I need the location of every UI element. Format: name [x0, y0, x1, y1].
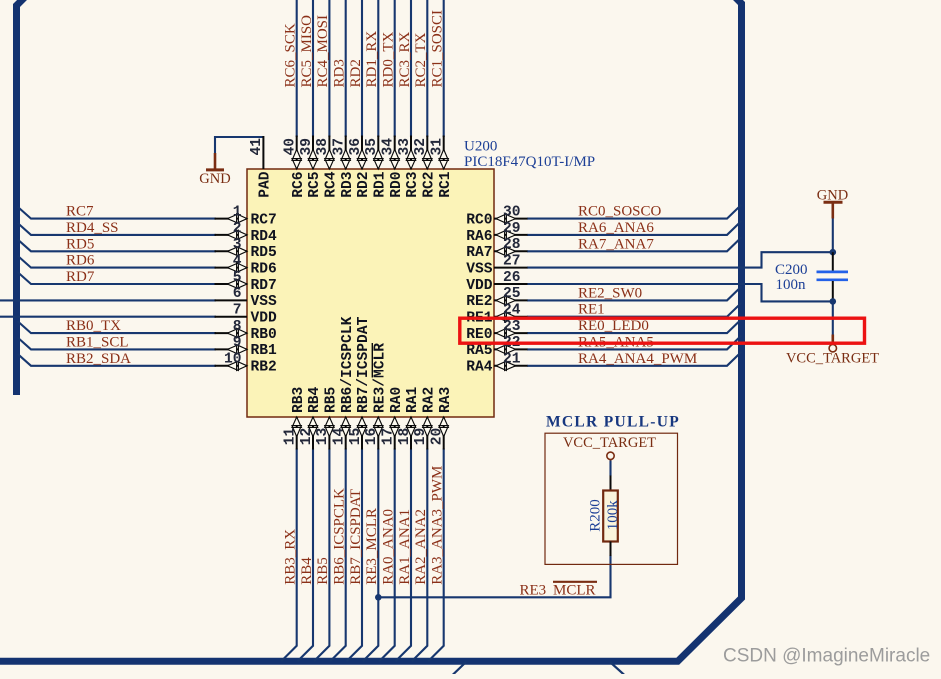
- pin 29 (RA6) right: [466, 221, 527, 245]
- IC U200 body (PIC18F47Q10T-I/MP): [247, 169, 494, 417]
- pin 13 (RB5) bottom: [315, 387, 339, 450]
- wire VSS/VDD pin 7 to left edge: [0, 316, 216, 318]
- resistor R200 100k: [603, 476, 618, 557]
- pin 5 (RD7) left: [215, 270, 277, 294]
- wire VSS/VDD pin 6 to left edge: [0, 299, 216, 301]
- svg-text:31: 31: [430, 138, 446, 156]
- svg-text:RC2: RC2: [422, 172, 438, 198]
- pin 4 (RD6) left: [215, 253, 277, 277]
- pin 22 (RA5) right: [466, 335, 527, 359]
- svg-text:24: 24: [503, 303, 521, 319]
- pin 1 (RC7) left: [215, 204, 277, 228]
- wire VCC_TARGET to R200: [609, 461, 611, 477]
- svg-text:4: 4: [233, 253, 242, 269]
- svg-text:RD4: RD4: [251, 229, 278, 245]
- svg-text:41: 41: [249, 138, 265, 156]
- pin 37 (RD3) top: [332, 136, 356, 198]
- pin 39 (RC5) top: [299, 136, 323, 198]
- sheet corner chamfer (bottom right notch): [610, 662, 626, 676]
- svg-text:RC5: RC5: [307, 172, 323, 198]
- svg-text:PAD: PAD: [258, 171, 274, 198]
- svg-text:VDD: VDD: [466, 278, 493, 294]
- svg-text:RD5: RD5: [66, 236, 94, 252]
- svg-text:RD1_RX: RD1_RX: [364, 31, 380, 88]
- wire net RD7 (left pin 5): [18, 272, 217, 284]
- svg-text:2: 2: [233, 221, 242, 237]
- svg-text:15: 15: [348, 428, 364, 446]
- svg-text:VCC_TARGET: VCC_TARGET: [563, 435, 656, 451]
- svg-text:38: 38: [315, 138, 331, 156]
- wire net RD3 (top pin 37): [345, 0, 347, 137]
- wire net RB4 (bottom pin 12): [298, 449, 314, 662]
- wire VDD pin 26 to C200 bottom: [527, 284, 833, 301]
- svg-text:VCC_TARGET: VCC_TARGET: [786, 351, 879, 367]
- svg-text:CSDN @ImagineMiracle: CSDN @ImagineMiracle: [723, 646, 930, 667]
- pin 9 (RB1) left: [215, 335, 278, 359]
- wire net RA6_ANA6 (right pin 29): [527, 221, 742, 235]
- svg-text:RD7: RD7: [251, 278, 277, 294]
- svg-text:8: 8: [233, 319, 242, 335]
- svg-text:RC0: RC0: [466, 212, 492, 228]
- pin 15 (RB7/ICSPDAT) bottom: [348, 316, 372, 449]
- svg-text:RB3_RX: RB3_RX: [283, 529, 299, 585]
- wire net RC0_SOSCO (right pin 30): [527, 205, 742, 219]
- pin 35 (RD1) top: [364, 136, 388, 198]
- svg-text:13: 13: [315, 428, 331, 446]
- junction RE3_MCLR: [375, 594, 382, 601]
- svg-text:RD3: RD3: [332, 59, 348, 87]
- svg-text:RA5: RA5: [466, 343, 492, 359]
- pin 33 (RC3) top: [397, 136, 421, 198]
- svg-text:25: 25: [503, 286, 521, 302]
- svg-text:RB1: RB1: [251, 343, 278, 359]
- svg-text:3: 3: [233, 237, 242, 253]
- pin 41 (PAD) top: [249, 136, 273, 198]
- svg-text:RB2: RB2: [251, 360, 277, 376]
- svg-text:RA1_ANA1: RA1_ANA1: [397, 509, 413, 585]
- svg-text:RD3: RD3: [340, 171, 356, 198]
- svg-text:RD7: RD7: [66, 269, 95, 285]
- bus (right vertical + bottom horizontal, chamfered sheet border): [0, 0, 742, 661]
- pin 24 (RE1) right: [466, 303, 527, 327]
- wire net RA4_ANA4_PWM (right pin 21): [527, 352, 742, 366]
- svg-text:R200: R200: [588, 499, 604, 532]
- svg-text:RC1_SOSCI: RC1_SOSCI: [430, 10, 446, 88]
- svg-text:RD0: RD0: [389, 172, 405, 198]
- svg-text:20: 20: [430, 428, 446, 446]
- svg-text:RC6: RC6: [291, 172, 307, 198]
- wire net RC6_SCK (top pin 40): [296, 0, 298, 137]
- wire net RD1_RX (top pin 35): [377, 0, 379, 137]
- pin 40 (RC6) top: [283, 136, 307, 198]
- svg-text:100n: 100n: [776, 277, 807, 293]
- svg-text:RB0_TX: RB0_TX: [66, 318, 121, 334]
- svg-text:RC2_TX: RC2_TX: [413, 32, 429, 87]
- pin 32 (RC2) top: [413, 136, 437, 198]
- wire net RB7_ICSPDAT (bottom pin 15): [347, 449, 363, 662]
- pin 20 (RA3) bottom: [430, 386, 454, 449]
- pin 17 (RA0) bottom: [381, 387, 405, 450]
- power port VCC_TARGET (C200): [786, 335, 879, 367]
- svg-text:RD5: RD5: [251, 245, 277, 261]
- svg-text:RC0_SOSCO: RC0_SOSCO: [578, 204, 662, 220]
- wire net RC1_SOSCI (top pin 31): [443, 0, 445, 137]
- wire RE3_MCLR horizontal to R200: [378, 555, 610, 597]
- svg-text:GND: GND: [199, 171, 230, 187]
- svg-text:RD2: RD2: [356, 172, 372, 198]
- svg-text:18: 18: [397, 428, 413, 446]
- svg-text:RC5_MISO: RC5_MISO: [299, 15, 315, 88]
- svg-text:33: 33: [397, 138, 413, 156]
- svg-text:RE2_SW0: RE2_SW0: [578, 285, 642, 301]
- svg-text:RD0_TX: RD0_TX: [381, 32, 397, 88]
- svg-text:21: 21: [503, 352, 521, 368]
- wire net RC2_TX (top pin 32): [426, 0, 428, 137]
- wire net RE1 (right pin 24): [527, 303, 742, 317]
- svg-text:RA3_ANA3_PWM: RA3_ANA3_PWM: [430, 466, 446, 585]
- svg-text:RB0: RB0: [251, 327, 277, 343]
- svg-text:VSS: VSS: [251, 294, 278, 310]
- svg-text:34: 34: [381, 138, 397, 156]
- wire VSS pin 27 to C200 top: [527, 252, 833, 267]
- pin 36 (RD2) top: [348, 136, 372, 198]
- svg-text:MCLR PULL-UP: MCLR PULL-UP: [546, 414, 680, 431]
- svg-text:RC3: RC3: [405, 171, 421, 198]
- pin 27 (VSS) right: [466, 253, 527, 277]
- junction C200 bottom: [830, 298, 837, 305]
- svg-text:RE0: RE0: [466, 327, 492, 343]
- svg-text:RE2: RE2: [466, 294, 492, 310]
- svg-text:1: 1: [233, 204, 242, 220]
- pin 11 (RB3) bottom: [283, 386, 307, 449]
- wire net RB5 (bottom pin 13): [314, 449, 330, 662]
- svg-text:6: 6: [233, 286, 242, 302]
- svg-text:RC6_SCK: RC6_SCK: [283, 23, 299, 87]
- pin 8 (RB0) left: [215, 319, 277, 343]
- pin 19 (RA2) bottom: [413, 387, 437, 450]
- wire net RA2_ANA2 (bottom pin 19): [412, 449, 428, 662]
- capacitor C200: [817, 252, 849, 301]
- svg-text:RB7/ICSPDAT: RB7/ICSPDAT: [356, 316, 372, 413]
- pin 25 (RE2) right: [466, 286, 527, 310]
- pin 3 (RD5) left: [215, 237, 277, 261]
- svg-text:RA3: RA3: [438, 386, 454, 413]
- wire net RE2_SW0 (right pin 25): [527, 286, 742, 300]
- wire net RA5_ANA5 (right pin 22): [527, 335, 742, 349]
- wire C200 to VCC_TARGET: [832, 301, 834, 334]
- sheet corner chamfer (bottom left notch): [452, 662, 467, 676]
- svg-text:RA4: RA4: [466, 360, 493, 376]
- svg-text:14: 14: [332, 428, 348, 446]
- wire net RA1_ANA1 (bottom pin 18): [396, 449, 412, 662]
- pin 6 (VSS) left: [215, 286, 278, 310]
- svg-text:RB4: RB4: [299, 557, 315, 585]
- svg-text:MCLR: MCLR: [553, 583, 596, 599]
- svg-text:RD6: RD6: [251, 261, 277, 277]
- pin 10 (RB2) left: [215, 352, 277, 376]
- svg-text:RC3_RX: RC3_RX: [397, 31, 413, 87]
- pin 34 (RD0) top: [381, 136, 405, 198]
- highlight box RE0_LED0 (red): [460, 318, 865, 343]
- wire net RE0_LED0 (right pin 23): [527, 319, 742, 333]
- svg-text:RA0: RA0: [389, 387, 405, 413]
- power port VCC_TARGET (pull-up): [563, 435, 656, 461]
- svg-text:10: 10: [224, 352, 242, 368]
- wire net RB3_RX (bottom pin 11): [281, 449, 297, 662]
- svg-text:100k: 100k: [605, 500, 621, 531]
- svg-text:RC4_MOSI: RC4_MOSI: [315, 15, 331, 88]
- svg-text:RC7: RC7: [251, 212, 277, 228]
- svg-text:9: 9: [233, 335, 242, 351]
- svg-text:23: 23: [503, 319, 521, 335]
- pin 16 name MCLR overline: [371, 343, 373, 378]
- svg-text:RC7: RC7: [66, 204, 94, 220]
- svg-text:RB1_SCL: RB1_SCL: [66, 334, 129, 350]
- svg-text:RE3_MCLR: RE3_MCLR: [364, 508, 380, 585]
- svg-text:30: 30: [503, 204, 521, 220]
- svg-text:7: 7: [233, 303, 242, 319]
- bus (left vertical): [17, 0, 27, 395]
- svg-text:35: 35: [364, 138, 380, 156]
- svg-text:39: 39: [299, 138, 315, 156]
- svg-text:36: 36: [348, 138, 364, 156]
- svg-text:RE3/MCLR: RE3/MCLR: [373, 343, 389, 413]
- svg-text:RA7_ANA7: RA7_ANA7: [578, 236, 654, 252]
- wire pin 41 PAD to GND: [215, 137, 263, 154]
- pin 21 (RA4) right: [466, 352, 527, 376]
- svg-text:19: 19: [413, 428, 429, 446]
- wire net RC7 (left pin 1): [18, 207, 217, 219]
- wire net RB6_ICSPCLK (bottom pin 14): [330, 449, 346, 662]
- svg-text:RA6_ANA6: RA6_ANA6: [578, 220, 654, 236]
- ground GND (C200): [817, 187, 848, 218]
- svg-text:RB5: RB5: [324, 387, 340, 413]
- wire net RD6 (left pin 4): [18, 256, 217, 268]
- svg-text:29: 29: [503, 221, 521, 237]
- wire net RA7_ANA7 (right pin 28): [527, 237, 742, 251]
- wire net RA0_ANA0 (bottom pin 17): [379, 449, 395, 662]
- svg-text:37: 37: [332, 138, 348, 156]
- pin 18 (RA1) bottom: [397, 386, 421, 449]
- svg-text:11: 11: [283, 428, 299, 446]
- svg-text:RA0_ANA0: RA0_ANA0: [381, 509, 397, 585]
- svg-text:U200: U200: [464, 139, 497, 155]
- svg-text:26: 26: [503, 270, 521, 286]
- wire net RB0_TX (left pin 8): [18, 321, 217, 333]
- svg-text:RA2: RA2: [422, 387, 438, 413]
- svg-text:RB5: RB5: [315, 557, 331, 585]
- svg-text:16: 16: [364, 428, 380, 446]
- svg-text:5: 5: [233, 270, 242, 286]
- wire net RD0_TX (top pin 34): [394, 0, 396, 137]
- svg-text:RB7_ICSPDAT: RB7_ICSPDAT: [348, 489, 364, 585]
- pin 31 (RC1) top: [430, 136, 454, 198]
- svg-text:RC1: RC1: [438, 171, 454, 198]
- wire net RB2_SDA (left pin 10): [18, 354, 217, 366]
- pin 12 (RB4) bottom: [299, 386, 323, 449]
- svg-text:RB3: RB3: [291, 386, 307, 413]
- svg-text:RA7: RA7: [466, 245, 492, 261]
- wire net RC5_MISO (top pin 39): [312, 0, 314, 137]
- svg-text:C200: C200: [775, 262, 808, 278]
- svg-text:RB6_ICSPCLK: RB6_ICSPCLK: [332, 488, 348, 585]
- svg-text:VDD: VDD: [251, 311, 278, 327]
- svg-text:RD2: RD2: [348, 59, 364, 87]
- svg-text:RB6/ICSPCLK: RB6/ICSPCLK: [340, 316, 356, 413]
- svg-text:32: 32: [413, 138, 429, 156]
- pin 26 (VDD) right: [466, 270, 527, 294]
- svg-text:RE0_LED0: RE0_LED0: [578, 318, 649, 334]
- svg-text:RE1: RE1: [578, 302, 605, 318]
- svg-text:RE3: RE3: [520, 583, 547, 599]
- wire net RA3_ANA3_PWM (bottom pin 20): [428, 449, 444, 662]
- junction C200 top: [830, 249, 837, 256]
- pin 14 (RB6/ICSPCLK) bottom: [332, 316, 356, 449]
- svg-text:RB4: RB4: [307, 386, 323, 413]
- svg-text:28: 28: [503, 237, 521, 253]
- svg-text:RC4: RC4: [324, 171, 340, 198]
- wire GND to C200 junction: [832, 219, 834, 253]
- ground GND (pin 41 pad): [199, 153, 230, 187]
- pin 23 (RE0) right: [466, 319, 527, 343]
- wire net RC3_RX (top pin 33): [410, 0, 412, 137]
- pin 30 (RC0) right: [466, 204, 527, 228]
- net label RE3 MCLR (overbar): [520, 582, 598, 599]
- pin 16 (RE3/MCLR) bottom: [364, 343, 388, 450]
- svg-text:RD1: RD1: [373, 171, 389, 198]
- svg-text:27: 27: [503, 253, 521, 269]
- svg-text:RD6: RD6: [66, 253, 95, 269]
- wire net RE3_MCLR (bottom pin 16): [363, 449, 379, 662]
- svg-text:RB2_SDA: RB2_SDA: [66, 351, 131, 367]
- pin 7 (VDD) left: [215, 303, 278, 327]
- svg-text:40: 40: [283, 138, 299, 156]
- svg-text:PIC18F47Q10T-I/MP: PIC18F47Q10T-I/MP: [464, 154, 595, 170]
- svg-text:12: 12: [299, 428, 315, 446]
- wire net RD4_SS (left pin 2): [18, 223, 217, 235]
- wire net RD5 (left pin 3): [18, 239, 217, 251]
- MCLR PULL-UP box: [545, 433, 678, 564]
- svg-text:RA1: RA1: [405, 386, 421, 413]
- pin 2 (RD4) left: [215, 221, 278, 245]
- svg-text:RA6: RA6: [466, 229, 492, 245]
- wire net RB1_SCL (left pin 9): [18, 337, 217, 349]
- wire net RD2 (top pin 36): [361, 0, 363, 137]
- svg-text:17: 17: [381, 428, 397, 446]
- svg-text:RA4_ANA4_PWM: RA4_ANA4_PWM: [578, 351, 697, 367]
- pin 28 (RA7) right: [466, 237, 527, 261]
- svg-text:RA2_ANA2: RA2_ANA2: [413, 509, 429, 585]
- wire net RC4_MOSI (top pin 38): [328, 0, 330, 137]
- pin 38 (RC4) top: [315, 136, 339, 198]
- svg-text:VSS: VSS: [466, 261, 493, 277]
- svg-text:RD4_SS: RD4_SS: [66, 220, 119, 236]
